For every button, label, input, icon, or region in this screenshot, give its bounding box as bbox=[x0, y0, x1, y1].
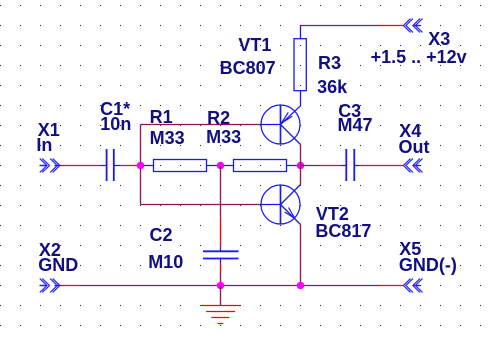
resistor R3 bbox=[294, 26, 306, 107]
wire ground bus bbox=[61, 285, 404, 287]
wire node C to VT2 collector bbox=[300, 166, 302, 185]
label R1 value M33 bbox=[150, 129, 185, 147]
label C2 value M10 bbox=[148, 253, 183, 271]
connector X4 bbox=[403, 159, 422, 173]
label C3 bbox=[338, 102, 361, 120]
connector X2 bbox=[40, 279, 61, 293]
label VT1 value BC807 bbox=[220, 59, 276, 77]
wire C1 to node A bbox=[120, 165, 141, 167]
label VT2 bbox=[316, 205, 349, 223]
label C2 bbox=[150, 226, 173, 244]
wire C2 to ground bus bbox=[220, 259, 222, 286]
resistor R1 bbox=[141, 160, 221, 172]
label X3 voltage range bbox=[371, 48, 467, 66]
resistor R2 bbox=[221, 160, 301, 172]
junction node D bbox=[217, 282, 225, 290]
transistor VT2 bbox=[261, 185, 301, 225]
label R2 bbox=[207, 109, 230, 127]
wire node C to C3 bbox=[301, 165, 342, 167]
label X2 GND bbox=[38, 256, 78, 274]
junction node A bbox=[137, 162, 145, 170]
label X5 GND(-) bbox=[399, 256, 457, 274]
label X3 bbox=[428, 30, 450, 48]
label R3 bbox=[318, 54, 341, 72]
label X5 bbox=[399, 240, 421, 258]
capacitor C3 bbox=[341, 149, 360, 181]
label X1 bbox=[38, 121, 60, 139]
label X4 bbox=[399, 122, 421, 140]
junction node C bbox=[297, 162, 305, 170]
capacitor C2 bbox=[203, 251, 239, 258]
wire VT2 emitter to ground bus bbox=[300, 225, 302, 286]
ground bbox=[200, 286, 240, 324]
label X2 bbox=[39, 241, 61, 259]
junction node E bbox=[297, 282, 305, 290]
wire VT1 collector to node C bbox=[300, 145, 302, 166]
wire V+ rail bbox=[301, 25, 404, 27]
connector X5 bbox=[403, 279, 422, 293]
label X1 In bbox=[36, 136, 52, 154]
wire X1 to C1 bbox=[61, 165, 102, 167]
wire node B to C2 bbox=[220, 166, 222, 251]
label C1 value 10n bbox=[100, 115, 131, 133]
transistor VT1 bbox=[261, 105, 301, 145]
connector X1 bbox=[40, 159, 61, 173]
wire feedback top to VT1 base bbox=[141, 124, 262, 126]
label VT1 bbox=[238, 36, 271, 54]
capacitor C1 bbox=[101, 149, 120, 181]
junction node B bbox=[217, 162, 225, 170]
label C1 bbox=[100, 100, 130, 118]
label VT2 value BC817 bbox=[315, 222, 371, 240]
label R3 value 36k bbox=[317, 78, 347, 96]
label R2 value M33 bbox=[206, 128, 241, 146]
wire feedback left vertical bbox=[140, 125, 142, 205]
label R1 bbox=[150, 108, 173, 126]
wire feedback bottom to VT2 base bbox=[141, 204, 262, 206]
label C3 value M47 bbox=[338, 116, 373, 134]
connector X3 bbox=[403, 19, 422, 33]
wire C3 to X4 bbox=[360, 165, 404, 167]
label X4 Out bbox=[399, 138, 430, 156]
